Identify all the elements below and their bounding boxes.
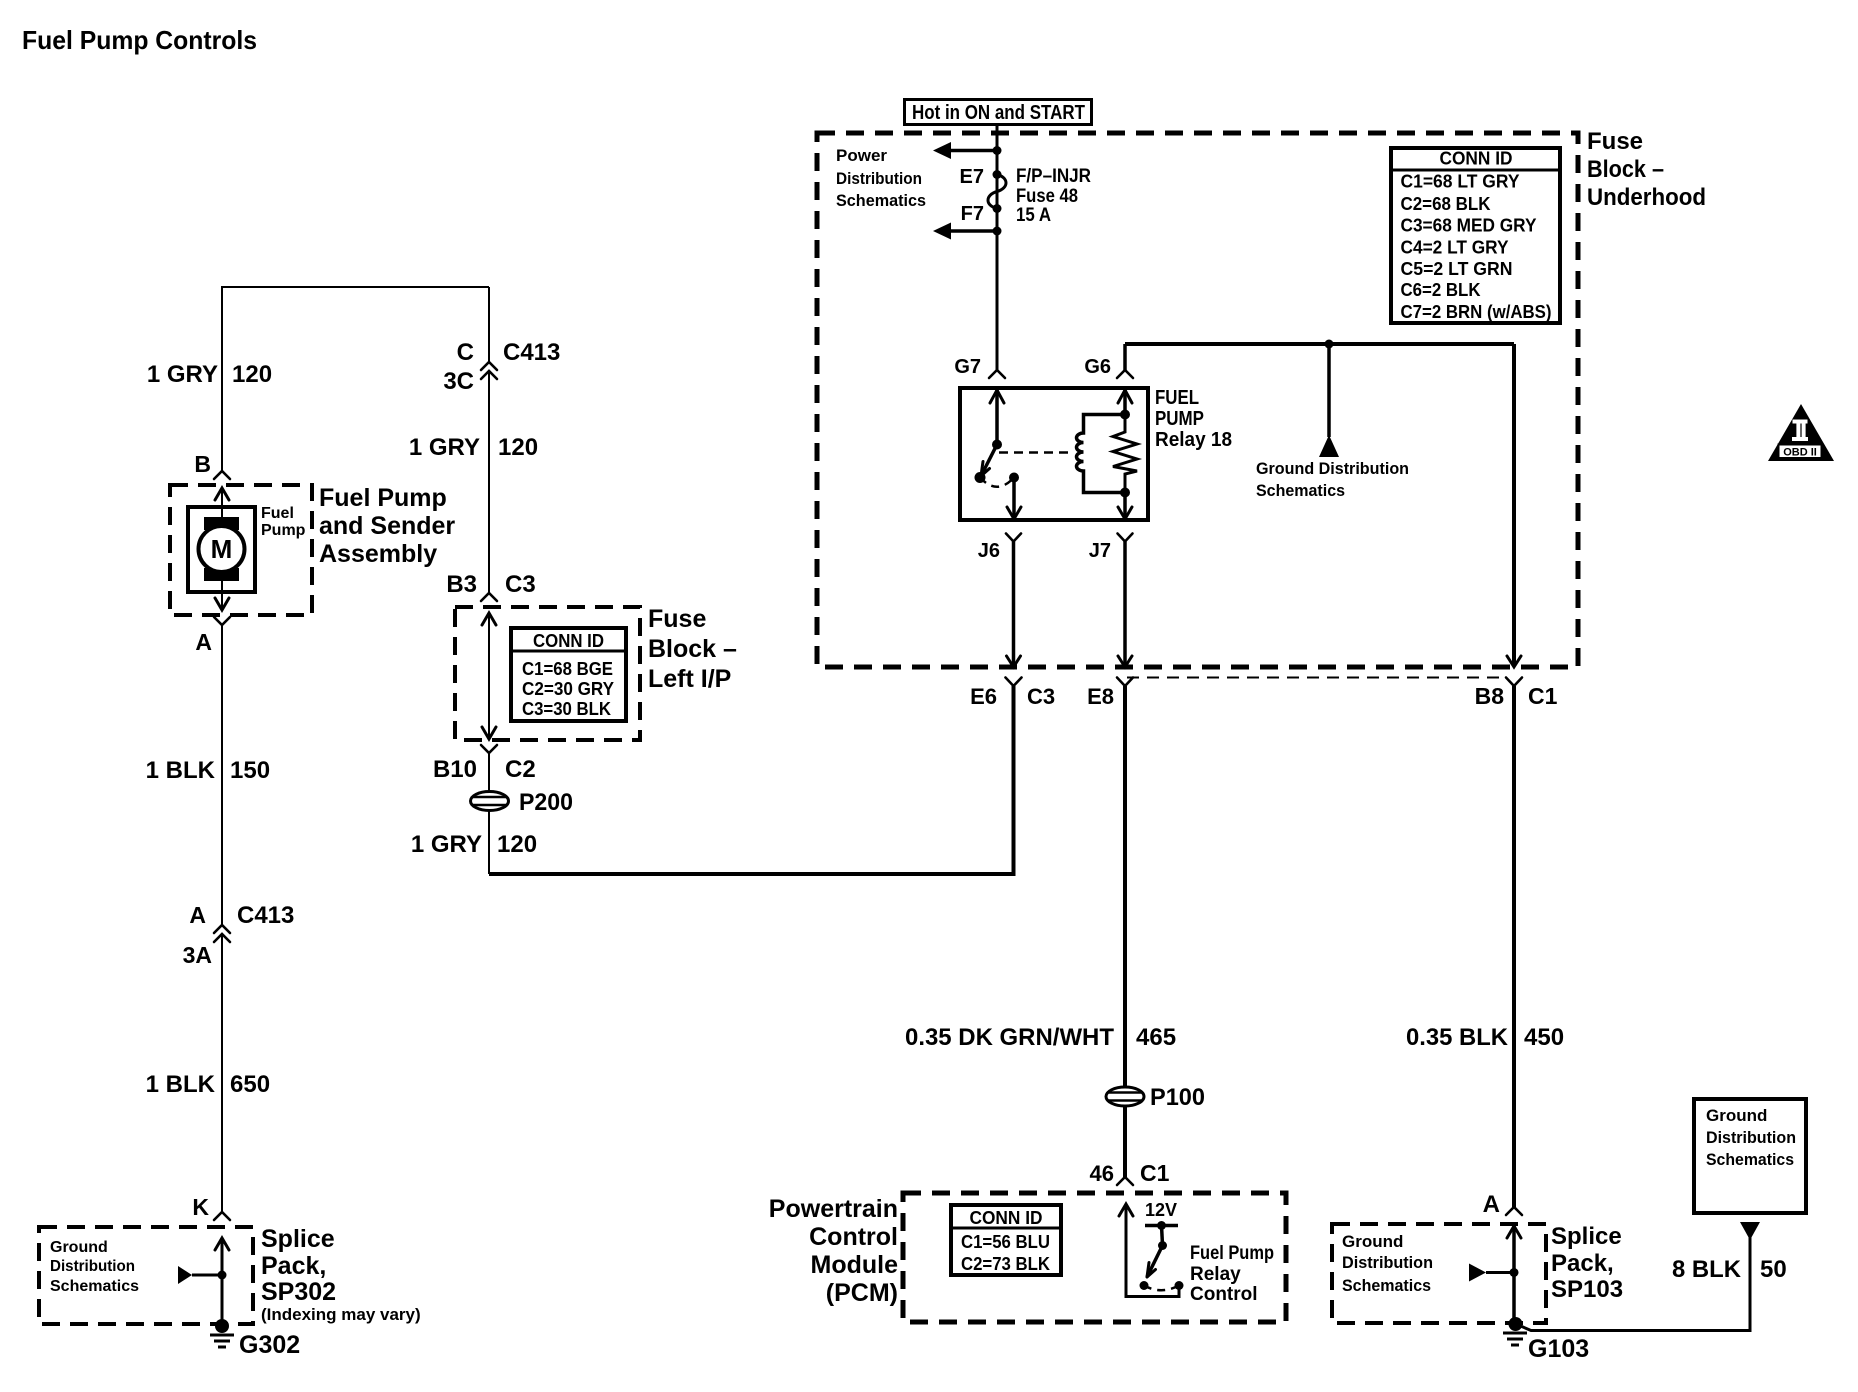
svg-text:P100: P100: [1150, 1084, 1205, 1111]
svg-text:3C: 3C: [443, 368, 474, 395]
svg-text:1 BLK: 1 BLK: [146, 757, 216, 784]
svg-text:G302: G302: [239, 1331, 300, 1359]
svg-text:Ground: Ground: [50, 1239, 108, 1256]
svg-text:120: 120: [498, 434, 538, 461]
svg-text:C3=68 MED GRY: C3=68 MED GRY: [1401, 216, 1537, 236]
svg-text:1 GRY: 1 GRY: [147, 361, 218, 388]
svg-text:A: A: [1483, 1191, 1500, 1218]
svg-text:CONN ID: CONN ID: [1440, 149, 1513, 169]
svg-text:Pack,: Pack,: [261, 1252, 326, 1280]
svg-text:C1: C1: [1528, 683, 1558, 709]
svg-text:120: 120: [232, 361, 272, 388]
svg-text:C1: C1: [1140, 1160, 1170, 1186]
svg-text:A: A: [195, 629, 212, 655]
svg-text:FUEL: FUEL: [1155, 387, 1199, 409]
svg-text:C3: C3: [505, 571, 536, 598]
svg-text:C2=68 BLK: C2=68 BLK: [1401, 194, 1491, 214]
svg-text:150: 150: [230, 757, 270, 784]
svg-text:1 GRY: 1 GRY: [411, 831, 482, 858]
svg-text:SP103: SP103: [1551, 1276, 1623, 1303]
svg-text:Fuse: Fuse: [1587, 128, 1643, 155]
svg-text:C2=73 BLK: C2=73 BLK: [961, 1254, 1050, 1274]
svg-text:Fuse: Fuse: [648, 605, 706, 633]
svg-text:Fuse 48: Fuse 48: [1016, 186, 1078, 207]
svg-text:Ground: Ground: [1706, 1106, 1767, 1125]
svg-text:CONN ID: CONN ID: [533, 631, 604, 651]
svg-text:Distribution: Distribution: [1342, 1253, 1433, 1272]
svg-text:B3: B3: [446, 571, 477, 598]
svg-text:B: B: [194, 451, 211, 477]
svg-text:Pack,: Pack,: [1551, 1250, 1614, 1277]
svg-text:Schematics: Schematics: [1342, 1276, 1431, 1295]
svg-text:E7: E7: [960, 166, 984, 188]
svg-text:Power: Power: [836, 146, 887, 165]
svg-text:650: 650: [230, 1071, 270, 1098]
svg-text:Left I/P: Left I/P: [648, 665, 731, 693]
svg-text:C1=68 LT GRY: C1=68 LT GRY: [1401, 172, 1520, 192]
svg-text:C413: C413: [237, 902, 294, 929]
svg-text:Control: Control: [809, 1223, 898, 1251]
svg-text:15 A: 15 A: [1016, 205, 1051, 226]
svg-text:Schematics: Schematics: [50, 1278, 139, 1295]
svg-text:P200: P200: [519, 789, 573, 816]
svg-text:C: C: [457, 339, 474, 366]
svg-text:Distribution: Distribution: [50, 1258, 135, 1275]
svg-text:Block –: Block –: [648, 635, 737, 663]
svg-text:Fuel Pump: Fuel Pump: [319, 484, 447, 512]
svg-text:Schematics: Schematics: [1256, 481, 1345, 500]
svg-text:PUMP: PUMP: [1155, 408, 1204, 430]
svg-text:C3=30 BLK: C3=30 BLK: [522, 699, 611, 719]
svg-text:Pump: Pump: [261, 522, 306, 539]
svg-text:(PCM): (PCM): [826, 1279, 898, 1307]
svg-text:Splice: Splice: [1551, 1223, 1622, 1250]
svg-text:120: 120: [497, 831, 537, 858]
svg-text:Relay: Relay: [1190, 1264, 1241, 1285]
svg-text:Fuel: Fuel: [261, 505, 294, 522]
svg-text:Block –: Block –: [1587, 156, 1664, 183]
svg-text:12V: 12V: [1145, 1200, 1177, 1220]
svg-text:F/P–INJR: F/P–INJR: [1016, 166, 1091, 187]
svg-text:50: 50: [1760, 1256, 1787, 1283]
svg-text:C1=56 BLU: C1=56 BLU: [961, 1232, 1050, 1252]
svg-text:C7=2 BRN (w/ABS): C7=2 BRN (w/ABS): [1401, 302, 1552, 322]
svg-text:CONN ID: CONN ID: [970, 1208, 1043, 1228]
svg-text:Schematics: Schematics: [1706, 1150, 1794, 1169]
svg-text:Relay 18: Relay 18: [1155, 429, 1232, 451]
svg-text:3A: 3A: [183, 942, 212, 968]
svg-text:C5=2 LT GRN: C5=2 LT GRN: [1401, 259, 1513, 279]
svg-text:1 GRY: 1 GRY: [409, 434, 480, 461]
svg-text:SP302: SP302: [261, 1278, 336, 1306]
svg-text:G7: G7: [954, 356, 981, 378]
svg-text:C3: C3: [1027, 684, 1055, 709]
svg-text:C4=2 LT GRY: C4=2 LT GRY: [1401, 238, 1509, 258]
svg-text:1 BLK: 1 BLK: [146, 1071, 216, 1098]
svg-text:C2=30 GRY: C2=30 GRY: [522, 679, 614, 699]
svg-text:465: 465: [1136, 1024, 1176, 1051]
svg-text:8 BLK: 8 BLK: [1672, 1256, 1742, 1283]
svg-text:E8: E8: [1087, 684, 1114, 709]
svg-text:OBD II: OBD II: [1783, 447, 1817, 459]
svg-text:G103: G103: [1528, 1335, 1589, 1363]
svg-text:B8: B8: [1475, 683, 1505, 709]
svg-text:E6: E6: [970, 684, 997, 709]
svg-text:Module: Module: [811, 1251, 899, 1279]
svg-text:Splice: Splice: [261, 1225, 335, 1253]
svg-text:Assembly: Assembly: [319, 540, 437, 568]
svg-text:F7: F7: [961, 203, 984, 225]
svg-text:Hot in ON and START: Hot in ON and START: [912, 102, 1085, 124]
svg-text:Distribution: Distribution: [836, 169, 922, 188]
svg-text:B10: B10: [433, 756, 477, 783]
svg-text:Distribution: Distribution: [1706, 1128, 1796, 1147]
svg-text:G6: G6: [1084, 356, 1111, 378]
svg-text:C6=2 BLK: C6=2 BLK: [1401, 280, 1481, 300]
svg-text:Powertrain: Powertrain: [769, 1195, 898, 1223]
svg-text:(Indexing may vary): (Indexing may vary): [261, 1305, 421, 1324]
svg-text:46: 46: [1090, 1161, 1114, 1186]
svg-text:J7: J7: [1089, 540, 1111, 562]
svg-text:M: M: [211, 534, 233, 564]
svg-text:Fuel Pump Controls: Fuel Pump Controls: [22, 25, 257, 55]
svg-text:0.35 DK GRN/WHT: 0.35 DK GRN/WHT: [905, 1024, 1114, 1051]
svg-text:Fuel Pump: Fuel Pump: [1190, 1243, 1274, 1264]
svg-text:A: A: [189, 902, 206, 928]
svg-text:J6: J6: [978, 540, 1000, 562]
svg-text:450: 450: [1524, 1024, 1564, 1051]
svg-text:C1=68 BGE: C1=68 BGE: [522, 659, 613, 679]
svg-text:K: K: [192, 1194, 209, 1220]
svg-text:C2: C2: [505, 756, 536, 783]
svg-text:Underhood: Underhood: [1587, 184, 1706, 211]
svg-text:and Sender: and Sender: [319, 512, 455, 540]
svg-text:C413: C413: [503, 339, 560, 366]
svg-text:Control: Control: [1190, 1284, 1258, 1305]
svg-text:Schematics: Schematics: [836, 191, 926, 210]
svg-text:Ground Distribution: Ground Distribution: [1256, 459, 1409, 478]
svg-text:0.35 BLK: 0.35 BLK: [1406, 1024, 1509, 1051]
svg-text:Ground: Ground: [1342, 1232, 1403, 1251]
